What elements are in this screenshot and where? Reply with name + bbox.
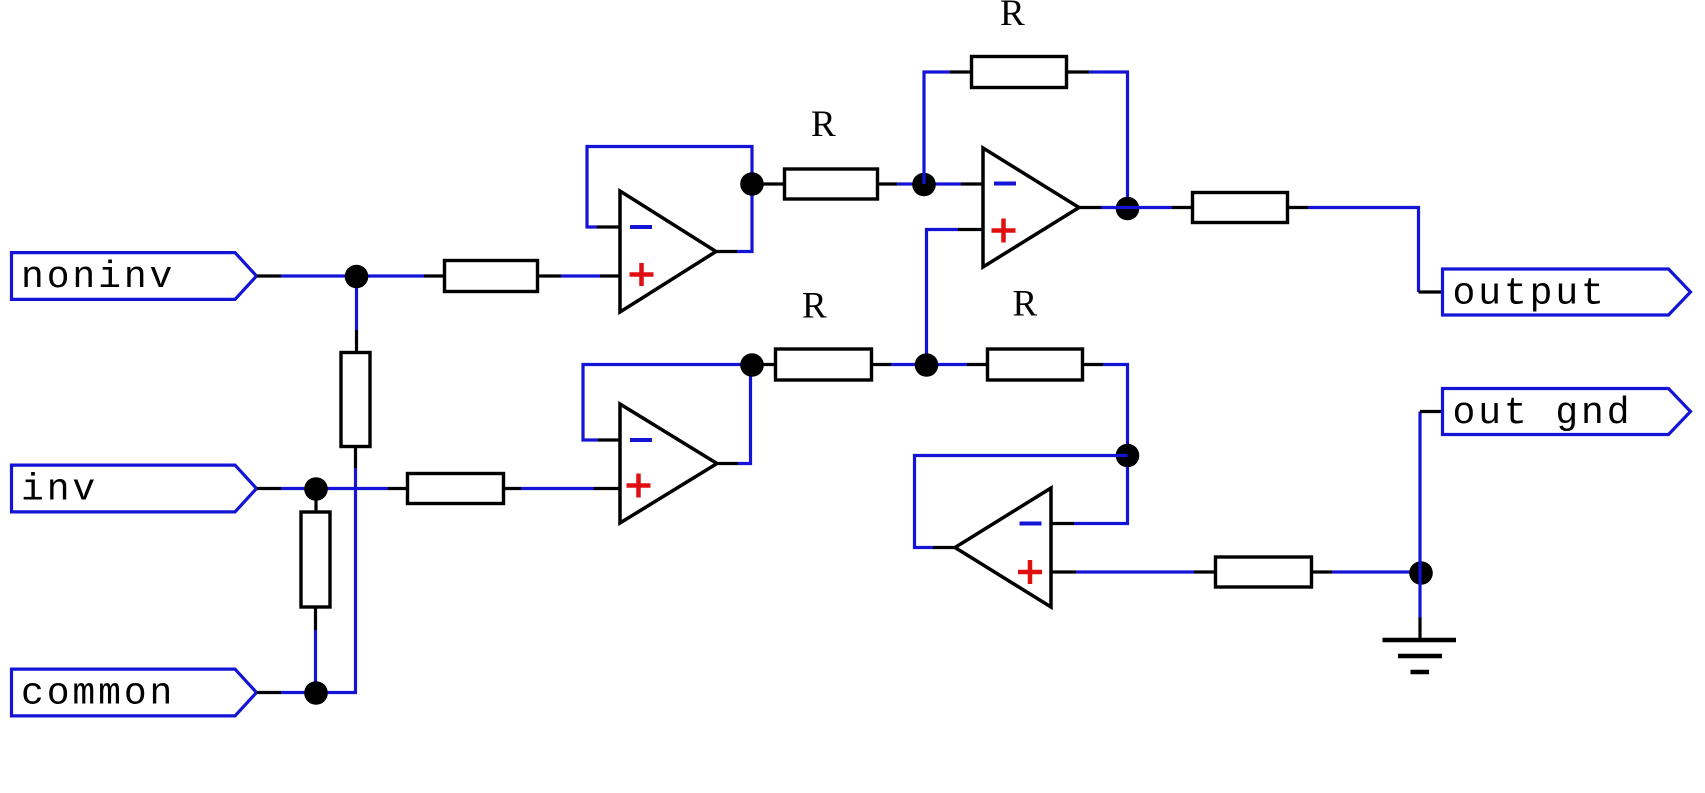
port flag noninv bbox=[12, 253, 257, 300]
junction node I (U4 minus) bbox=[1116, 444, 1140, 468]
lead R10 left bbox=[1194, 570, 1215, 573]
wire node A down bbox=[355, 276, 358, 330]
lead R5 right bbox=[878, 182, 897, 185]
svg-text:common: common bbox=[21, 673, 175, 716]
pin U4 plus input bbox=[1051, 570, 1076, 573]
junction node A (noninv) bbox=[345, 265, 369, 289]
wire R8 to node H bbox=[891, 363, 967, 366]
op-amp U4 bbox=[955, 488, 1051, 607]
lead R7 right bbox=[1288, 206, 1309, 209]
lead R6 right bbox=[1067, 70, 1090, 73]
ground stub bbox=[1418, 618, 1421, 639]
op-amp U1 bbox=[620, 191, 716, 312]
port flag common bbox=[12, 669, 257, 716]
ground symbol bbox=[1383, 640, 1457, 672]
lead R4 bottom bbox=[314, 607, 317, 630]
resistor R8 bbox=[776, 349, 872, 380]
lead R2 top bbox=[355, 330, 358, 352]
pin stub of common flag bbox=[257, 691, 281, 694]
svg-text:R: R bbox=[1000, 0, 1025, 34]
pin U1 plus input bbox=[600, 274, 620, 277]
wire common flag through node C to riser bbox=[281, 691, 357, 694]
resistor R6 bbox=[972, 57, 1067, 88]
wire U2 feedback right riser bbox=[1089, 72, 1128, 208]
wire U1 feedback loop bbox=[587, 147, 752, 252]
resistor R10 bbox=[1216, 557, 1312, 587]
port flag inv bbox=[12, 465, 257, 512]
wire R4 bottom to node C bbox=[314, 630, 317, 694]
wire R1 to U1 plus bbox=[561, 274, 600, 277]
wire U2 plus input riser bbox=[927, 230, 959, 365]
resistor R5 bbox=[785, 169, 878, 199]
lead R1 left bbox=[424, 274, 444, 277]
junction node G (U3 output) bbox=[740, 353, 764, 377]
wire inv flag to node B bbox=[281, 487, 316, 490]
lead node G to R8 bbox=[752, 363, 775, 366]
wire node A to R1 bbox=[357, 274, 425, 277]
lead R2 bottom bbox=[354, 446, 357, 468]
svg-text:output: output bbox=[1453, 273, 1607, 316]
resistor R9 bbox=[988, 349, 1083, 380]
svg-text:R: R bbox=[802, 286, 827, 327]
resistor R7 bbox=[1193, 193, 1288, 223]
wire noninv flag to node A bbox=[281, 274, 357, 277]
resistor R1 bbox=[445, 261, 538, 292]
port flag out gnd bbox=[1443, 389, 1691, 436]
lead R8 right bbox=[872, 363, 892, 366]
wire R3 to U3 plus bbox=[521, 487, 594, 490]
lead R4 top from node B bbox=[314, 490, 317, 512]
pin U4 minus input bbox=[1051, 522, 1074, 525]
wire U4 feedback loop bbox=[915, 456, 1128, 548]
svg-text:R: R bbox=[811, 104, 836, 145]
svg-text:out gnd: out gnd bbox=[1453, 392, 1633, 435]
junction node H bbox=[915, 353, 939, 377]
wire U3 feedback loop bbox=[583, 365, 751, 464]
resistor R4 bbox=[301, 512, 330, 607]
wire node J riser to out gnd flag and ground bbox=[1418, 412, 1421, 618]
lead node D to R5 bbox=[752, 182, 784, 185]
lead R6 left bbox=[950, 70, 971, 73]
resistor R2 bbox=[341, 353, 370, 447]
svg-text:noninv: noninv bbox=[21, 256, 175, 299]
lead R3 right bbox=[504, 487, 522, 490]
lead R9 left bbox=[967, 363, 987, 366]
wire R10 to node J bbox=[1332, 570, 1421, 573]
pin stub of output flag bbox=[1419, 290, 1444, 293]
junction node J (out gnd) bbox=[1409, 561, 1433, 585]
svg-text:inv: inv bbox=[21, 469, 98, 512]
lead R7 left bbox=[1172, 206, 1192, 209]
wire R7 to output flag bbox=[1308, 208, 1419, 293]
junction node F (U2 output) bbox=[1116, 197, 1140, 221]
wire U4 plus to R10 bbox=[1076, 570, 1194, 573]
lead R9 right bbox=[1083, 363, 1104, 366]
junction node E (U2 minus) bbox=[912, 173, 936, 197]
wire R9 down to U4 minus bbox=[1074, 365, 1128, 524]
pin U1 output bbox=[716, 250, 737, 253]
pin U4 output bbox=[933, 546, 955, 549]
pin U3 plus input bbox=[594, 487, 620, 490]
junction node C (common) bbox=[304, 681, 328, 705]
lead R10 right bbox=[1312, 570, 1333, 573]
pin U3 output bbox=[717, 462, 738, 465]
wire node B to R3 bbox=[316, 487, 388, 490]
svg-text:R: R bbox=[1013, 284, 1038, 325]
port flag output bbox=[1443, 269, 1691, 316]
pin stub of inv flag bbox=[257, 487, 281, 490]
wire R5 to U2 minus node bbox=[897, 182, 961, 185]
pin stub of noninv flag bbox=[257, 274, 281, 277]
lead R3 left bbox=[388, 487, 407, 490]
junction node D (U1 output) bbox=[740, 172, 764, 196]
wire U2 output to R7 bbox=[1101, 206, 1172, 209]
pin U2 output bbox=[1079, 206, 1101, 209]
pin U3 minus input bbox=[598, 438, 620, 441]
resistor R3 bbox=[408, 474, 504, 504]
op-amp U3 bbox=[620, 404, 717, 523]
wire R2 bottom to common line bbox=[354, 468, 357, 693]
wire U2 feedback left riser bbox=[924, 72, 950, 184]
pin U2 plus input bbox=[958, 228, 983, 231]
lead R1 right bbox=[538, 274, 561, 277]
op-amp U2 bbox=[983, 148, 1079, 267]
pin U1 minus input bbox=[597, 225, 620, 228]
junction node B (inv) bbox=[304, 477, 328, 501]
pin U2 minus input bbox=[961, 182, 983, 185]
pin stub of out gnd flag bbox=[1420, 410, 1443, 413]
